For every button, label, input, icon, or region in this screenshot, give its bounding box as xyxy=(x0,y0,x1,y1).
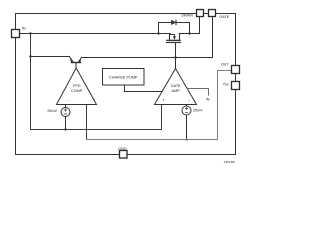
pin OUT xyxy=(232,66,240,74)
svg-text:25mV: 25mV xyxy=(47,109,57,113)
source V2 25mV offset xyxy=(182,106,191,115)
svg-text:-: - xyxy=(67,98,69,103)
node pulldown left junction xyxy=(29,55,31,57)
svg-text:VDD: VDD xyxy=(222,82,228,87)
svg-text:GND: GND xyxy=(118,147,127,151)
svg-text:CHARGE PUMP: CHARGE PUMP xyxy=(109,76,138,80)
wire pulldown right emitter to gate net xyxy=(82,57,213,59)
source V1 25mV offset xyxy=(61,108,70,117)
wire OUT sense line xyxy=(87,71,232,140)
wire V1 to IN sense line xyxy=(65,117,67,130)
svg-text:GATE: GATE xyxy=(171,84,182,88)
wire GATE AMP inverting input xyxy=(186,105,188,107)
node diode cathode junction xyxy=(188,32,190,34)
wire IN row from IN pin to FET source xyxy=(20,33,171,35)
chip outline border xyxy=(16,14,236,155)
wire V2 to OUT sense line xyxy=(186,115,188,140)
pin GND xyxy=(120,151,128,159)
node gate net junction xyxy=(174,56,176,58)
wire FPD inverting input xyxy=(65,105,67,108)
transistor M1 internal MOSFET xyxy=(169,34,171,40)
op-amp FPD COMP xyxy=(57,68,97,105)
wire FPD non-inverting input down to OUT sense line xyxy=(86,105,88,140)
wire charge pump output to gate amp xyxy=(125,85,163,92)
svg-text:+: + xyxy=(162,98,165,103)
wire Q1 base stem to FPD output xyxy=(75,63,77,69)
svg-text:IN: IN xyxy=(206,97,210,101)
wire GATE AMP output to gate net xyxy=(175,58,177,69)
svg-text:DRAIN: DRAIN xyxy=(181,13,193,17)
node V2 junction xyxy=(185,138,187,140)
wire pulldown left emitter xyxy=(31,56,70,58)
node FET source junction xyxy=(157,32,159,34)
op-amp GATE AMP xyxy=(155,69,197,105)
svg-text:FPD: FPD xyxy=(73,84,81,88)
svg-text:4352 BD: 4352 BD xyxy=(224,160,235,164)
wire M1 drain to DRAIN pin xyxy=(180,17,200,34)
svg-text:OUT: OUT xyxy=(221,63,230,67)
diode D1 body diode loop xyxy=(159,23,190,34)
wire GATE AMP IN stub xyxy=(187,89,208,96)
pin VDD xyxy=(232,82,240,90)
wire GATE pin drop xyxy=(212,17,214,58)
svg-text:COMP: COMP xyxy=(71,89,83,93)
wire M1 gate lead to gate net xyxy=(175,43,177,58)
pin GATE xyxy=(209,10,216,17)
node FPD offset junction xyxy=(64,128,66,130)
svg-text:25mV: 25mV xyxy=(193,109,203,113)
pin IN xyxy=(12,30,20,38)
svg-text:AMP: AMP xyxy=(172,89,181,93)
svg-text:-: - xyxy=(189,98,191,103)
svg-text:GATE: GATE xyxy=(219,15,229,19)
wire IN vertical down to sense line, over to gate amp + input xyxy=(31,34,162,130)
pin DRAIN xyxy=(197,10,204,17)
node IN junction xyxy=(29,32,31,34)
transistor Q1 fast pull-down, left emitter diagonal xyxy=(70,57,73,62)
transistor Q1 right emitter diagonal xyxy=(79,58,82,62)
transistor Q1 base bar xyxy=(72,62,81,64)
svg-text:IN: IN xyxy=(22,26,26,30)
charge pump U2 xyxy=(103,69,145,86)
